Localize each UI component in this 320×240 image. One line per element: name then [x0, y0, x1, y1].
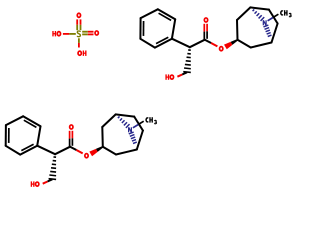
- atropine molecule 2 (bottom left): [6, 114, 157, 186]
- benzene ring: [140, 9, 175, 47]
- carbonyl double bond C=O: [204, 24, 207, 40]
- atom O top: [77, 13, 80, 17]
- methyl CH3: [281, 10, 291, 17]
- bond CH2-OH: [182, 72, 187, 74]
- bond phenyl-CH: [172, 39, 190, 48]
- bond N-CH3: [268, 18, 273, 21]
- bond S-OH bottom: [78, 38, 80, 43]
- hydroxyl HO left: [53, 31, 61, 36]
- hashed wedge N-C1: [253, 9, 255, 11]
- hydroxyl OH bottom: [78, 51, 86, 56]
- atom O carbonyl: [204, 18, 207, 22]
- double bond S=O top: [77, 19, 80, 30]
- hashed wedge N-C5: [268, 35, 272, 36]
- atom O right: [95, 31, 98, 35]
- atom S: [77, 31, 80, 37]
- bond S-OH left: [63, 33, 69, 35]
- atropine molecule 1 (top right): [140, 7, 291, 79]
- atom N: [262, 20, 264, 25]
- bond C(=O)-O ester: [205, 40, 211, 43]
- hashed wedge CH-CH2: [188, 49, 191, 51]
- bond CH-C(=O): [190, 40, 205, 48]
- sulfuric acid H2SO4: [53, 13, 98, 56]
- tropane ring: [237, 7, 278, 47]
- atom O ester: [220, 47, 223, 51]
- wedge bond O-C3: [231, 39, 238, 45]
- hydroxyl HO: [166, 74, 173, 79]
- double bond S=O right: [82, 32, 93, 35]
